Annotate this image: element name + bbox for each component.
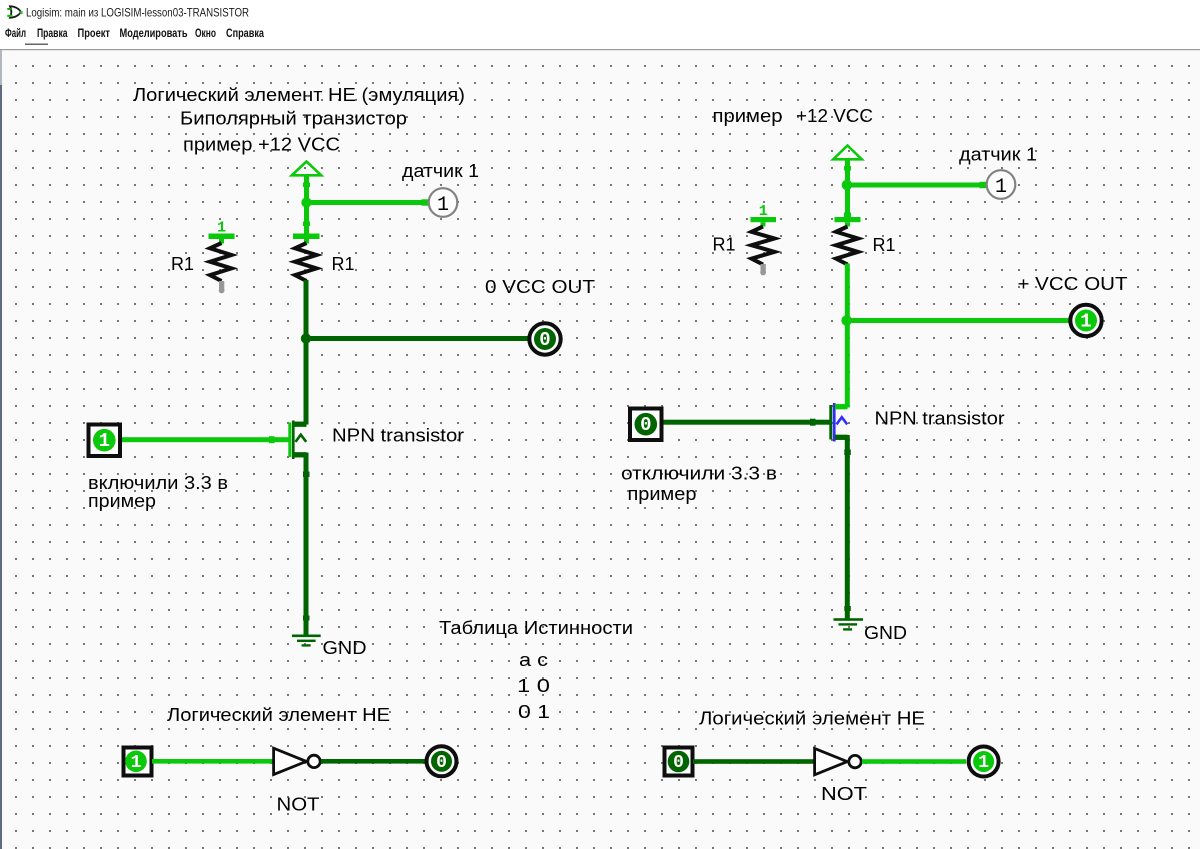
- port nub resistor top: [303, 222, 310, 227]
- svg-text:1 0: 1 0: [517, 676, 550, 696]
- svg-text:1: 1: [437, 194, 449, 217]
- svg-text:Правка: Правка: [37, 26, 68, 40]
- transistor Q1 channel plate: [292, 421, 295, 460]
- port nub power: [303, 183, 310, 188]
- resistor R1 (pull-up): [293, 234, 320, 240]
- power V1 (+12 VCC): [292, 162, 321, 176]
- ground GND1: [292, 635, 321, 638]
- svg-text:0: 0: [640, 414, 651, 436]
- resistor R1 (pull-up right): [835, 217, 861, 222]
- power V2: [833, 146, 862, 160]
- input pin IN1 (value 1): [89, 425, 121, 457]
- svg-text:пример +12 VCC: пример +12 VCC: [183, 135, 340, 155]
- port nub power right: [844, 166, 851, 171]
- port nub gnd top right: [844, 606, 851, 611]
- svg-text:NPN transistor: NPN transistor: [875, 409, 1005, 429]
- svg-text:R1: R1: [332, 254, 355, 274]
- svg-text:Окно: Окно: [195, 26, 216, 40]
- wire resistor to collector (node 1): [845, 264, 850, 408]
- port nub probe: [422, 199, 429, 205]
- transistor Q2 emitter lead: [835, 435, 848, 440]
- svg-text:0: 0: [436, 753, 447, 773]
- wire emitter to ground: [304, 453, 309, 636]
- svg-text:0 1: 0 1: [518, 702, 550, 722]
- left window edge (light upper): [0, 50, 2, 85]
- svg-text:1: 1: [995, 176, 1007, 199]
- svg-text:NOT: NOT: [277, 795, 320, 815]
- transistor Q1 base plate: [288, 423, 291, 458]
- node junction J1: [301, 197, 311, 207]
- wire emitter to ground: [845, 435, 850, 619]
- input pin IN2 (value 1): [124, 748, 152, 776]
- port nub probe right: [980, 182, 987, 188]
- svg-text:Logisim: main из LOGISIM-lesso: Logisim: main из LOGISIM-lesson03-TRANSI…: [26, 6, 249, 20]
- node junction J4: [841, 315, 852, 326]
- svg-text:1: 1: [99, 430, 110, 452]
- wire junction to probe: [847, 183, 986, 188]
- svg-text:1: 1: [978, 753, 989, 773]
- transistor Q2 channel plate: [833, 403, 836, 442]
- input pin IN4 (value 0): [665, 748, 693, 776]
- svg-text:GND: GND: [323, 638, 367, 658]
- port nub gnd top: [303, 616, 310, 621]
- svg-text:0: 0: [539, 329, 550, 351]
- canvas top border: [0, 49, 1200, 50]
- wire power to junction: [304, 176, 309, 237]
- transistor Q2 base plate: [829, 405, 832, 440]
- svg-text:Логический элемент НЕ: Логический элемент НЕ: [699, 709, 925, 729]
- ground GND2: [834, 618, 864, 621]
- titlebar Logisim icon: [7, 6, 22, 17]
- output pin OUT4 (value 1): [969, 747, 999, 777]
- port nub resistor top right: [844, 213, 851, 218]
- svg-text:0 VCC OUT: 0 VCC OUT: [485, 277, 595, 297]
- svg-text:пример: пример: [628, 484, 697, 504]
- transistor Q2 emitter arrow: [837, 417, 848, 424]
- wire junction to probe: [307, 200, 429, 205]
- wire junction to output: [847, 318, 1069, 323]
- svg-text:включили 3.3 в: включили 3.3 в: [88, 473, 228, 493]
- svg-text:R1: R1: [171, 254, 194, 274]
- menu underline: [25, 44, 48, 46]
- svg-text:датчик 1: датчик 1: [402, 161, 479, 181]
- output pin OUT2 (value 0): [427, 746, 457, 776]
- svg-text:пример: пример: [88, 491, 156, 511]
- transistor Q1 collector lead: [294, 422, 307, 427]
- svg-text:Логический элемент НЕ: Логический элемент НЕ: [167, 705, 390, 725]
- svg-text:Проект: Проект: [78, 26, 111, 40]
- svg-text:а с: а с: [519, 650, 548, 670]
- NOT gate G1: [274, 748, 307, 774]
- port nub emitter: [303, 472, 310, 478]
- svg-text:отключили 3.3 в: отключили 3.3 в: [621, 464, 777, 484]
- svg-text:1: 1: [1080, 310, 1091, 332]
- svg-text:1: 1: [131, 753, 142, 773]
- svg-text:датчик 1: датчик 1: [959, 145, 1037, 165]
- port nub emitter right: [844, 450, 851, 456]
- node junction J3: [842, 180, 853, 191]
- transistor Q2 collector lead: [835, 404, 848, 409]
- svg-text:NOT: NOT: [821, 784, 867, 804]
- output pin OUT3 (value 1): [1070, 305, 1101, 336]
- wire resistor to collector (node 0): [304, 280, 309, 425]
- left window edge (dark lower): [0, 85, 2, 849]
- transistor Q1 emitter arrow: [296, 435, 307, 442]
- svg-text:+12 VCC: +12 VCC: [796, 106, 873, 126]
- input pin IN3 (value 0): [630, 409, 662, 441]
- svg-text:Файл: Файл: [5, 26, 26, 40]
- wire input to base: [664, 420, 831, 425]
- svg-text:Моделировать: Моделировать: [120, 26, 188, 40]
- svg-text:Справка: Справка: [226, 26, 264, 40]
- svg-text:GND: GND: [864, 623, 907, 643]
- svg-text:Логический элемент НЕ (эмуляци: Логический элемент НЕ (эмуляция): [133, 85, 465, 105]
- wire NOT to output: [862, 759, 966, 764]
- probe P2: [987, 170, 1016, 199]
- wire input to NOT: [693, 759, 814, 764]
- NOT gate G2: [815, 748, 848, 774]
- svg-text:Таблица Истинности: Таблица Истинности: [439, 618, 633, 638]
- svg-text:R1: R1: [713, 235, 736, 255]
- svg-text:R1: R1: [873, 235, 896, 255]
- output pin OUT1 (value 0): [529, 323, 560, 354]
- wire junction to output: [306, 336, 528, 341]
- wire input to base: [122, 437, 289, 442]
- svg-text:Биполярный транзистор: Биполярный транзистор: [180, 109, 407, 129]
- svg-text:0: 0: [673, 753, 684, 773]
- svg-text:пример: пример: [713, 106, 783, 126]
- probe P1: [429, 188, 458, 217]
- svg-text:+ VCC OUT: + VCC OUT: [1018, 274, 1128, 294]
- node junction J2: [301, 333, 311, 343]
- wire NOT to output: [321, 759, 427, 764]
- svg-text:NPN transistor: NPN transistor: [332, 426, 464, 446]
- wire input to NOT: [152, 759, 273, 764]
- wire power to junction: [845, 160, 850, 218]
- transistor Q1 emitter lead: [294, 452, 307, 457]
